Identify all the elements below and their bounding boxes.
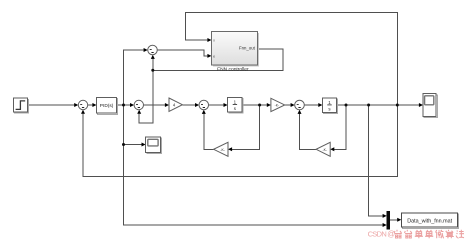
svg-text:FNN controller: FNN controller	[217, 67, 249, 73]
svg-text:PID(s): PID(s)	[100, 103, 114, 109]
svg-text:CSDN: CSDN	[368, 230, 387, 239]
svg-text:Fnn_out: Fnn_out	[239, 46, 256, 51]
svg-text:-K-: -K-	[323, 148, 328, 152]
svg-text:-K-: -K-	[220, 148, 225, 152]
svg-text:e: e	[213, 54, 215, 58]
svg-text:-K-: -K-	[275, 103, 280, 107]
svg-text:@: @	[387, 230, 395, 239]
svg-text:Data_with_fnn.mat: Data_with_fnn.mat	[407, 218, 452, 224]
